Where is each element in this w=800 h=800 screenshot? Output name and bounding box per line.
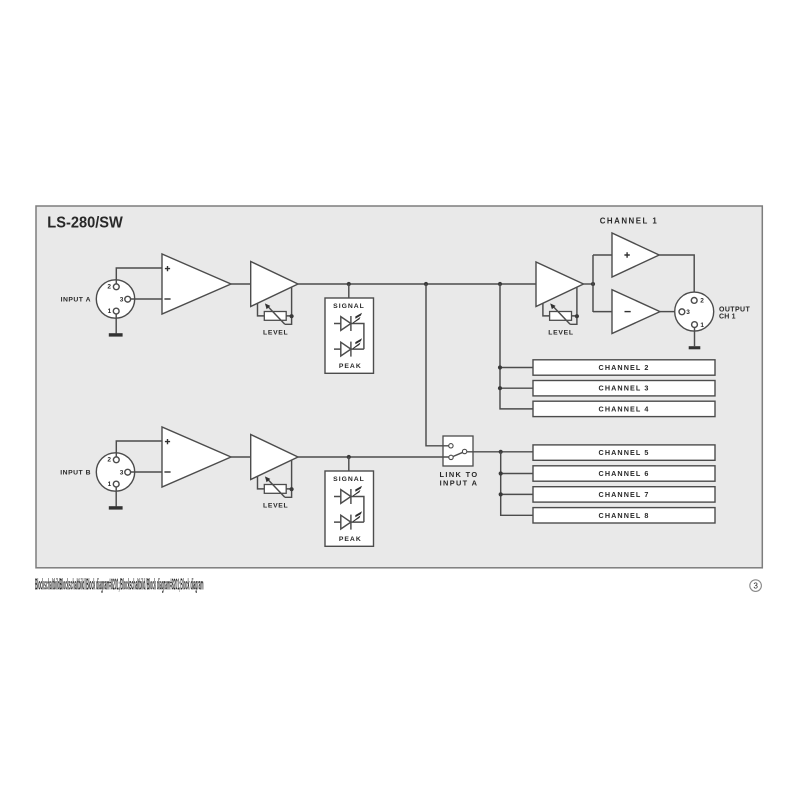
block CHANNEL 8: [533, 508, 715, 523]
wire stub to CHANNEL 7: [501, 493, 533, 495]
node: signal tap B: [347, 455, 351, 459]
junction R2/output: [575, 314, 579, 318]
op-amp U1 (input A): [162, 254, 231, 314]
svg-text:CHANNEL 3: CHANNEL 3: [599, 384, 650, 393]
svg-text:BlockschaltbildBlockschaltbild: BlockschaltbildBlockschaltbild / Block d…: [35, 576, 204, 593]
switch S1 contacts LINK TO INPUT A: [449, 444, 467, 460]
switch S1 body (LINK TO INPUT A): [443, 436, 473, 466]
svg-text:1: 1: [108, 308, 112, 315]
plus sign U1: [165, 266, 170, 271]
wire J1 pin3 to op-amp -: [131, 298, 162, 300]
junction R1/output: [290, 314, 294, 318]
wire U1 out to U2: [231, 283, 251, 285]
connector J3 INPUT B (XLR): [96, 453, 134, 491]
panel background: [36, 206, 762, 568]
node channel7 tap: [499, 492, 503, 496]
svg-text:INPUT B: INPUT B: [60, 469, 91, 476]
block CHANNEL 6: [533, 466, 715, 481]
wire stub to CHANNEL 2: [500, 367, 533, 369]
svg-text:1: 1: [108, 481, 112, 488]
minus sign U1: [164, 298, 170, 300]
svg-text:1: 1: [700, 322, 704, 329]
wire R1 wiper to output node: [291, 287, 293, 316]
wire J1 pin1 to ground: [115, 314, 117, 333]
ground (input A): [109, 333, 123, 336]
wire U4 out to J2 pin2: [659, 255, 694, 298]
svg-text:3: 3: [686, 309, 690, 316]
minus sign U5: [625, 311, 631, 313]
junction R3/output: [290, 487, 294, 491]
svg-text:3: 3: [120, 296, 124, 303]
node channel bus B tap: [499, 450, 503, 454]
potentiometer R3 LEVEL (input B): [264, 476, 291, 497]
block CHANNEL 7: [533, 487, 715, 502]
node: link tap A: [424, 282, 428, 286]
op-amp U6 (input B): [162, 427, 231, 487]
wire R2 wiper to output node: [576, 287, 578, 316]
svg-text:3: 3: [753, 582, 758, 591]
connector J1 INPUT A (XLR): [96, 280, 134, 318]
node splitter CH1: [591, 282, 595, 286]
page number circle 3: [750, 580, 762, 592]
svg-text:2: 2: [107, 284, 111, 291]
node channel6 tap: [499, 471, 503, 475]
block CHANNEL 4: [533, 401, 715, 416]
connector J2 OUTPUT CH1 (XLR): [675, 292, 714, 331]
svg-text:INPUT A: INPUT A: [440, 478, 479, 487]
node: signal tap A: [347, 282, 351, 286]
svg-text:CHANNEL 1: CHANNEL 1: [600, 217, 659, 226]
node channel3 tap: [498, 386, 502, 390]
svg-text:LEVEL: LEVEL: [263, 502, 288, 509]
svg-text:CHANNEL 4: CHANNEL 4: [599, 404, 650, 413]
svg-text:CH 1: CH 1: [719, 313, 736, 320]
svg-text:2: 2: [107, 457, 111, 464]
svg-text:PEAK: PEAK: [339, 536, 362, 543]
indicator box B (SIGNAL/PEAK): [325, 471, 374, 546]
wire main bus A (U2 out to CH1 amp): [298, 283, 536, 285]
wire main bus B (U7 out to switch): [298, 456, 449, 458]
wire J2 pin1 to ground: [694, 328, 696, 347]
wire U5 out to J2: [660, 311, 675, 313]
svg-text:CHANNEL 5: CHANNEL 5: [599, 448, 650, 457]
LED D1 SIGNAL (A): [334, 313, 364, 349]
node: channel bus tap A: [498, 282, 502, 286]
plus sign U6: [165, 439, 170, 444]
output driver U4 (+): [612, 233, 659, 277]
svg-text:INPUT A: INPUT A: [61, 296, 91, 303]
wire stub to CHANNEL 6: [501, 473, 533, 475]
svg-text:3: 3: [120, 469, 124, 476]
block CHANNEL 3: [533, 381, 715, 396]
svg-text:CHANNEL 6: CHANNEL 6: [599, 469, 650, 478]
ground (input B): [109, 506, 123, 509]
svg-text:SIGNAL: SIGNAL: [333, 303, 365, 310]
svg-text:LEVEL: LEVEL: [263, 329, 288, 336]
amplifier U7 (input B, with level control): [251, 435, 298, 480]
LED D2 PEAK (A): [334, 338, 364, 356]
wire channel bus A down: [500, 284, 533, 409]
wire link from bus A to switch: [426, 284, 449, 446]
wire J1 pin2 to op-amp +: [116, 268, 162, 284]
svg-text:LEVEL: LEVEL: [548, 329, 573, 336]
amplifier U2 (input A, with level control): [251, 262, 298, 307]
wire J3 pin3 to op-amp -: [131, 471, 162, 473]
LED D4 PEAK (B): [334, 511, 364, 529]
wire U2 bottom edge to potentiometer R1: [258, 303, 265, 316]
plus sign U4: [624, 252, 629, 257]
block CHANNEL 5: [533, 445, 715, 460]
LED D3 SIGNAL (B): [334, 486, 364, 522]
wire U3 bottom edge to potentiometer R2: [543, 303, 550, 316]
svg-text:PEAK: PEAK: [339, 363, 362, 370]
svg-text:CHANNEL 7: CHANNEL 7: [599, 490, 650, 499]
minus sign U6: [164, 471, 170, 473]
wire U3 out to splitter node: [584, 283, 594, 285]
wire U6 out to U7: [231, 456, 251, 458]
output driver U5 (-): [612, 290, 660, 334]
block CHANNEL 2: [533, 360, 715, 375]
indicator box A (SIGNAL/PEAK): [325, 298, 374, 373]
node channel2 tap: [498, 365, 502, 369]
potentiometer R1 LEVEL (input A): [264, 303, 291, 324]
wire stub to CHANNEL 3: [500, 387, 533, 389]
potentiometer R2 LEVEL (channel 1): [550, 303, 577, 324]
ground (output): [689, 346, 701, 349]
svg-text:2: 2: [700, 298, 704, 305]
wire channel bus B down: [501, 452, 533, 516]
wire J3 pin1 to ground: [115, 487, 117, 506]
svg-text:CHANNEL 2: CHANNEL 2: [599, 363, 650, 372]
wire to indicator box A: [348, 284, 350, 298]
svg-text:LS-280/SW: LS-280/SW: [47, 215, 123, 232]
amplifier U3 CHANNEL 1: [536, 262, 584, 307]
svg-text:CHANNEL 8: CHANNEL 8: [599, 511, 650, 520]
wire to indicator box B: [348, 457, 350, 471]
svg-text:SIGNAL: SIGNAL: [333, 476, 365, 483]
wire U7 bottom edge to potentiometer R3: [258, 476, 265, 489]
wire switch out to channel bus B: [467, 451, 533, 453]
wire splitter to output drivers: [593, 255, 612, 312]
wire J3 pin2 to op-amp +: [116, 441, 162, 457]
wire R3 wiper to output node: [291, 460, 293, 489]
